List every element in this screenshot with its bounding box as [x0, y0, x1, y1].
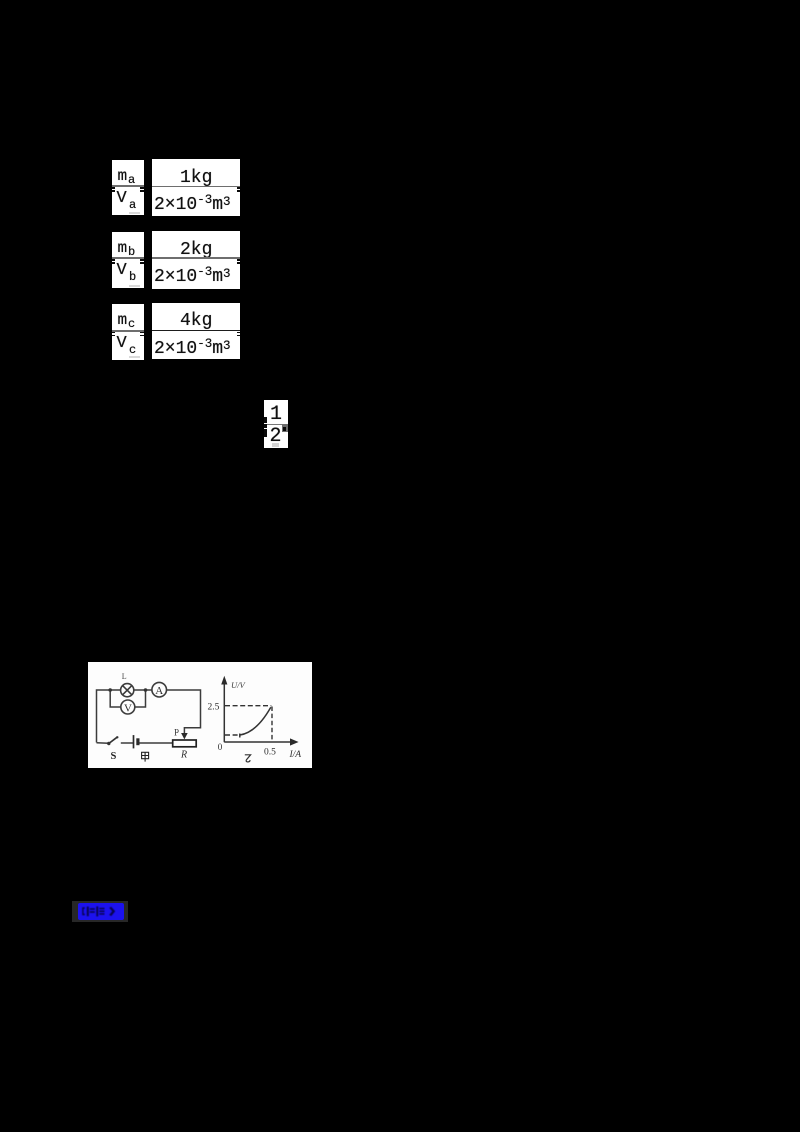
- graph label yi: [245, 755, 251, 762]
- switch S: [107, 742, 110, 745]
- battery label jia: [142, 752, 149, 761]
- node junction right: [144, 688, 148, 692]
- graph: I axis: [224, 741, 290, 743]
- wire: bottom battery to rheostat: [139, 742, 173, 744]
- answer link highlight: [72, 901, 128, 922]
- wire: lamp to ammeter: [134, 689, 152, 691]
- formula row b: box 2kg / 2x10^-3 m^3: [152, 231, 240, 289]
- graph: U axis: [223, 680, 225, 742]
- curve U-I: [240, 707, 271, 737]
- formula row c: box 4kg / 2x10^-3 m^3: [152, 303, 240, 359]
- node junction left: [108, 688, 112, 692]
- dashed segment lower left: [225, 734, 240, 736]
- formula row a: box m_a/V_a: [112, 160, 144, 216]
- lamp L: [121, 684, 134, 697]
- wire: top left to lamp: [97, 690, 121, 743]
- svg-text:L: L: [122, 672, 127, 681]
- voltmeter V: [121, 700, 135, 714]
- svg-text:I/A: I/A: [289, 750, 302, 760]
- svg-text:P: P: [174, 728, 179, 738]
- wire: voltmeter parallel branch: [110, 690, 121, 707]
- dashed line at 0.5: [271, 707, 273, 742]
- rheostat R: [173, 740, 197, 747]
- battery cell: [133, 735, 135, 748]
- svg-text:0.5: 0.5: [264, 748, 276, 758]
- dashed line at 2.5: [225, 705, 271, 707]
- formula row a: box 1kg / 2x10^-3 m^3: [152, 159, 240, 216]
- ammeter A: [152, 682, 167, 697]
- svg-text:0: 0: [218, 742, 223, 752]
- svg-text:V: V: [124, 702, 132, 714]
- image background: [88, 662, 312, 768]
- wire: ammeter to right and down to slider: [167, 690, 201, 734]
- formula row c: box m_c/V_c: [112, 304, 144, 360]
- circuit figure (scanned image): [88, 662, 312, 768]
- slider arrow P: [181, 733, 188, 739]
- fraction one half box: [264, 400, 288, 448]
- svg-text:S: S: [111, 751, 117, 762]
- wire: bottom left to switch: [97, 742, 109, 745]
- svg-text:U/V: U/V: [231, 680, 247, 690]
- formula row b: box m_b/V_b: [112, 232, 144, 289]
- svg-text:A: A: [155, 685, 163, 697]
- svg-text:R: R: [180, 750, 187, 761]
- svg-text:2.5: 2.5: [208, 703, 220, 713]
